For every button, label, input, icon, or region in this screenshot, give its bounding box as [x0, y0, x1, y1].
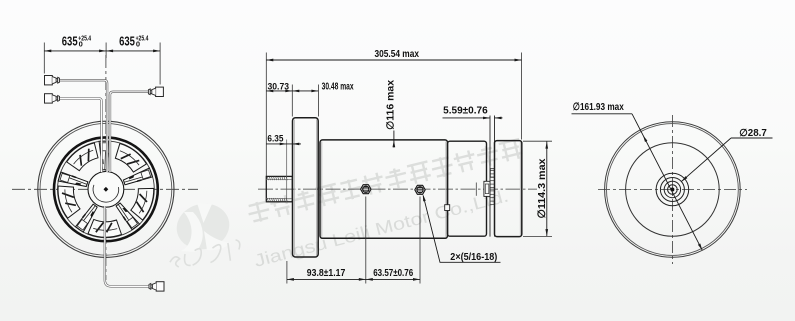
shaft thread hatching — [267, 177, 268, 181]
dim 635 line — [44, 50, 160, 52]
rib ticks between gap lines — [490, 170, 495, 172]
svg-text:0: 0 — [136, 39, 140, 48]
front view vertical centerline — [105, 55, 107, 280]
dim 30.73 / 30.48 line — [291, 85, 293, 117]
dim dia116 max — [385, 79, 396, 129]
hex bolt B1 — [361, 185, 371, 194]
wire W3 to right connector — [110, 92, 149, 172]
dim dia114.3 max extensions — [523, 140, 552, 142]
rear view vertical centerline — [671, 115, 673, 264]
svg-text:635: 635 — [62, 34, 78, 49]
dim dia114.3 max — [546, 142, 548, 237]
fan impeller: 5 blades — [48, 137, 166, 251]
connector T1 — [45, 76, 60, 85]
fan hub — [88, 171, 124, 207]
svg-text:30.48 max: 30.48 max — [322, 81, 354, 92]
wire W1 to top-left connector — [59, 80, 107, 172]
front view horizontal centerline — [12, 188, 198, 190]
dim 93.8 / 63.57 extensions — [286, 261, 288, 284]
svg-text:∅114.3 max: ∅114.3 max — [536, 158, 548, 218]
wire W2 to lower-left connector — [59, 98, 102, 172]
svg-text:305.54 max: 305.54 max — [375, 49, 420, 60]
terminal block — [484, 181, 490, 196]
hex bolt B2 — [415, 185, 425, 194]
hub center dot — [104, 187, 109, 192]
dim 635 extension lines — [43, 43, 45, 74]
watermark chinese text (simulated glyph blocks) — [246, 138, 523, 224]
svg-text:63.57±0.76: 63.57±0.76 — [373, 268, 413, 279]
end-bell gap lines — [489, 116, 491, 237]
connector T2 — [45, 94, 60, 103]
dim 305.54 line — [266, 59, 521, 61]
side view centerline — [258, 188, 537, 190]
watermark signature script — [168, 239, 242, 269]
svg-text:∅161.93 max: ∅161.93 max — [573, 101, 624, 113]
rear view horizontal centerline — [598, 189, 747, 191]
rear outer circle — [605, 122, 741, 258]
dim 305.54 extensions — [265, 53, 267, 177]
rear hub circles — [656, 173, 689, 206]
svg-text:2×(5/16-18): 2×(5/16-18) — [450, 252, 497, 263]
svg-text:635: 635 — [119, 34, 135, 49]
motor main cylinder — [320, 140, 448, 238]
svg-text:5.59±0.76: 5.59±0.76 — [443, 106, 488, 117]
threaded shaft — [266, 176, 292, 201]
svg-text:30.73: 30.73 — [268, 81, 290, 92]
svg-text:∅116 max: ∅116 max — [385, 79, 396, 129]
fan shroud ring — [54, 137, 158, 241]
terminal tab on drum — [445, 205, 450, 211]
wire W4 to bottom connector — [105, 206, 149, 286]
dim 93.8 / 63.57 line — [287, 278, 420, 280]
leader 2x(5/16-18) — [423, 196, 500, 263]
svg-text:0: 0 — [79, 39, 83, 48]
svg-text:93.8±1.17: 93.8±1.17 — [307, 268, 346, 279]
mounting flange (shroud side) — [293, 118, 319, 257]
fan outer ring (bezel) — [38, 121, 174, 257]
watermark logo ball — [172, 198, 234, 254]
connector T4 — [149, 282, 164, 291]
thread end line — [286, 140, 288, 203]
drum center tick — [475, 183, 477, 196]
connector T3 — [148, 87, 163, 96]
rear drum — [448, 141, 487, 236]
rear middle circle — [626, 143, 720, 237]
end bell — [495, 141, 522, 237]
